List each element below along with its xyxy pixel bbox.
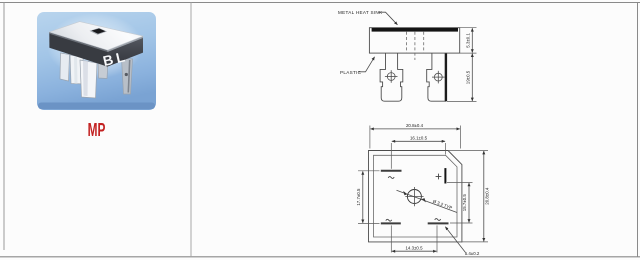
component top face xyxy=(49,22,143,50)
lead behind body xyxy=(98,60,108,79)
body dashed internal lines xyxy=(406,32,423,60)
terminal top-right bar (+lead) xyxy=(444,168,446,183)
terminal top-left bar xyxy=(381,170,402,172)
page border bottom xyxy=(0,256,640,258)
dim 19±0.5 line xyxy=(471,54,473,101)
plastic leader xyxy=(359,57,375,72)
blade details xyxy=(128,60,129,93)
photo glow behind part xyxy=(47,13,143,79)
dim 14.3±0.5 extension lines xyxy=(391,225,437,252)
svg-text:MP: MP xyxy=(88,121,106,141)
left lead outline xyxy=(380,53,403,101)
svg-text:14.3±0.5: 14.3±0.5 xyxy=(405,245,423,250)
product photo blue background xyxy=(37,12,156,110)
dim 16.1±0.5 line xyxy=(392,140,445,142)
dim 5.4±0.2 leader xyxy=(445,227,465,253)
svg-text:19±0.5: 19±0.5 xyxy=(465,70,470,84)
tilde above bottom-right bar xyxy=(435,219,441,221)
dim 17.7±0.5 extension lines xyxy=(358,171,380,224)
svg-text:20.8±0.4: 20.8±0.4 xyxy=(485,187,490,205)
svg-text:16.1±0.5: 16.1±0.5 xyxy=(410,136,428,141)
dim 5.3±0.1 line xyxy=(471,28,473,52)
dim 17.7±0.5 line xyxy=(362,171,364,223)
terminal bottom-right bar xyxy=(428,222,449,224)
page border left xyxy=(3,3,5,251)
dim 5.3±0.1 extension lines xyxy=(460,28,477,53)
component leads xyxy=(60,53,133,98)
body outline xyxy=(369,28,459,53)
lead shading xyxy=(83,61,88,97)
svg-text:5.3±0.1: 5.3±0.1 xyxy=(465,33,470,48)
lead right blade xyxy=(122,58,133,94)
dim 19±0.5 extension line xyxy=(447,101,477,103)
page border top xyxy=(0,2,640,4)
hole leader arrows xyxy=(403,191,407,195)
dim 20.8±0.4 (top) extension lines xyxy=(370,126,461,149)
svg-text:20.8±0.4: 20.8±0.4 xyxy=(406,123,424,128)
heat sink leader xyxy=(379,12,398,25)
top face hole rim xyxy=(90,28,108,35)
tilde below top-left bar xyxy=(388,177,394,179)
tilde above bottom-left bar xyxy=(386,219,392,221)
lead far left xyxy=(60,53,70,81)
mounting hole xyxy=(407,190,421,204)
right lead thick blade edge xyxy=(445,54,447,102)
component front face xyxy=(108,36,144,67)
lead left xyxy=(70,55,85,84)
right lead outline xyxy=(427,53,446,101)
svg-text:17.7±0.5: 17.7±0.5 xyxy=(356,188,361,206)
dim 20.8±0.4 (right) extension lines xyxy=(449,151,489,242)
terminal bottom-left bar xyxy=(381,222,401,224)
left face top edge highlight xyxy=(49,32,107,52)
svg-text:5.4±0.2: 5.4±0.2 xyxy=(465,251,480,256)
dim 14.3±0.5 line xyxy=(392,250,437,252)
panel divider xyxy=(190,3,192,257)
dim 16.1±0.5 extension lines xyxy=(391,143,445,169)
left lead hole xyxy=(385,70,398,83)
dim 20.8±0.4 (top) line xyxy=(370,128,460,130)
svg-text:15.7±0.5: 15.7±0.5 xyxy=(462,194,467,212)
lead center front xyxy=(80,60,97,98)
hole leader line xyxy=(397,190,458,212)
outer body outline xyxy=(369,151,462,242)
right lead hole xyxy=(432,71,445,84)
top face hole xyxy=(92,29,106,34)
page border right xyxy=(637,3,639,258)
metal heat sink bar xyxy=(372,28,458,32)
svg-text:METAL HEAT SINK: METAL HEAT SINK xyxy=(338,10,383,15)
dim 20.8±0.4 (right) line xyxy=(483,151,485,241)
front face top chamfer highlight xyxy=(108,36,144,52)
dim 15.7±0.5 extension lines xyxy=(447,182,473,223)
component left face xyxy=(49,32,107,67)
svg-text:PLASTIC: PLASTIC xyxy=(340,70,362,75)
plus sign xyxy=(436,174,442,180)
inner body outline xyxy=(374,155,458,237)
dim 15.7±0.5 line xyxy=(468,183,470,223)
